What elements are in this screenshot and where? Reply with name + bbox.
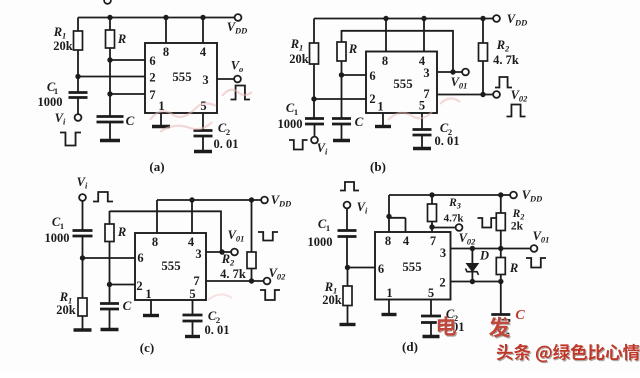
circuit (c) top supply rail wire xyxy=(157,199,261,201)
svg-text:1000: 1000 xyxy=(308,235,333,249)
svg-text:0. 01: 0. 01 xyxy=(435,134,460,148)
svg-text:4: 4 xyxy=(403,234,410,248)
circuit (d) VDD terminal xyxy=(510,188,542,204)
wire pin6 to 555 (b) xyxy=(342,74,367,76)
wire pin3 output (d) xyxy=(451,248,531,250)
wire pin8 to rail (c) xyxy=(156,200,158,233)
pin 1 label (d) xyxy=(386,286,392,300)
wire rail down to pins 8-4 (d) xyxy=(388,195,390,232)
capacitor C2 0.01 (b) xyxy=(413,113,460,148)
svg-text:1: 1 xyxy=(326,223,330,233)
output terminal V01 (d) xyxy=(531,229,550,252)
capacitor C2 0.01 (d) xyxy=(421,300,465,337)
svg-text:2: 2 xyxy=(439,276,445,290)
capacitor C1 1000 (d) xyxy=(308,209,357,268)
svg-text:R: R xyxy=(117,32,126,46)
pin 8 label (d) xyxy=(385,234,391,248)
pin 2 label (c) xyxy=(136,279,142,293)
svg-text:2: 2 xyxy=(226,127,230,137)
node pin2-R junction (d) xyxy=(498,279,503,284)
pin 6 label (d) xyxy=(378,262,384,276)
svg-text:5: 5 xyxy=(189,287,195,301)
wire R-top to pin3 feedback (b) xyxy=(342,30,454,72)
svg-text:0. 01: 0. 01 xyxy=(205,323,230,337)
pin 6 label (b) xyxy=(369,69,375,83)
svg-text:1: 1 xyxy=(60,221,64,231)
svg-text:5: 5 xyxy=(200,99,206,113)
pin 5 label (d) xyxy=(428,286,434,300)
svg-text:(c): (c) xyxy=(140,340,154,355)
resistor R1 20k (a) xyxy=(53,18,83,77)
resistor R (a) xyxy=(106,18,127,61)
svg-text:2k: 2k xyxy=(511,221,524,233)
svg-text:5: 5 xyxy=(428,286,434,300)
pin 2 label (a) xyxy=(149,71,155,85)
svg-text:8: 8 xyxy=(152,235,158,249)
node pin7 junction (c) xyxy=(249,278,254,283)
svg-text:8: 8 xyxy=(382,54,388,68)
ground below C2 (d) xyxy=(423,335,440,338)
red headline text toutiao at lvsebixinqing xyxy=(496,343,640,364)
pin 7 label (d) xyxy=(430,234,436,248)
wire pin8 to rail (a) xyxy=(165,18,167,44)
svg-text:3: 3 xyxy=(195,247,201,261)
node: pin7 junction (a) xyxy=(107,91,112,96)
pin 3 label (a) xyxy=(202,73,208,87)
node rail-R2 (b) xyxy=(480,16,485,21)
svg-text:20k: 20k xyxy=(289,52,309,66)
circuit (d) top supply rail wire xyxy=(389,194,510,196)
wire pin2 to 555 (c) xyxy=(110,284,136,286)
svg-text:C: C xyxy=(515,308,525,323)
capacitor C1 1000 (c) xyxy=(45,201,93,258)
capacitor C (c) xyxy=(100,285,132,330)
svg-text:1000: 1000 xyxy=(45,231,70,245)
node pin6 junction (b) xyxy=(339,72,344,77)
circuit (a) VDD terminal xyxy=(227,14,248,35)
label (a) xyxy=(149,159,164,174)
svg-text:3: 3 xyxy=(423,66,429,80)
input terminal Vi (d) xyxy=(344,200,368,216)
node rail-R2 (d) xyxy=(498,192,503,197)
resistor R1 20k (d) xyxy=(322,268,352,325)
svg-text:0. 01: 0. 01 xyxy=(214,137,239,151)
negative pulse near V02 (d) xyxy=(478,218,497,228)
wire pin3 output (c) xyxy=(206,251,231,253)
ground below C (d) xyxy=(492,333,509,336)
capacitor C1 1000 (b) xyxy=(278,99,325,137)
svg-text:555: 555 xyxy=(393,77,412,91)
svg-text:3: 3 xyxy=(440,246,446,260)
wire pin6 to 555 (a) xyxy=(110,59,145,61)
negative pulse near V01 (c) xyxy=(258,232,278,241)
node pin7-R2 junction (b) xyxy=(480,92,485,97)
resistor R (d) xyxy=(496,249,518,282)
node rail-pin4 (c) xyxy=(189,197,194,202)
capacitor C (a) xyxy=(97,113,135,128)
wire down to capacitor C (d) xyxy=(500,282,502,315)
ground below R1 (d) xyxy=(340,323,356,326)
svg-text:6: 6 xyxy=(369,69,375,83)
resistor R1 20k (c) xyxy=(56,258,87,330)
negative pulse near V02 (c) xyxy=(260,290,280,300)
wire pin2 to 555 (a) xyxy=(78,76,145,78)
svg-text:20k: 20k xyxy=(322,293,342,307)
svg-text:555: 555 xyxy=(172,70,191,84)
svg-text:(b): (b) xyxy=(370,159,386,174)
wire R-top feedback to pin3 (c) xyxy=(110,211,222,253)
svg-text:1: 1 xyxy=(377,100,383,114)
pin 4 label (b) xyxy=(419,54,426,68)
pin 1 label (b) xyxy=(377,100,383,114)
svg-text:4. 7k: 4. 7k xyxy=(220,267,246,281)
pin 3 label (c) xyxy=(195,247,201,261)
faint pink watermark scribble over circuit c xyxy=(208,294,232,300)
svg-text:7: 7 xyxy=(193,274,199,288)
node pin8 hook junction (d) xyxy=(386,214,391,219)
diode D zener (d) xyxy=(466,249,490,282)
output positive pulse waveform (a) xyxy=(231,86,251,100)
wire pin3 output (b) xyxy=(437,71,462,73)
pin 2 label (d) xyxy=(439,276,445,290)
resistor R1 20k (b) xyxy=(289,19,318,100)
ground pin1 (a) xyxy=(152,113,170,127)
wire pin7 down (d) xyxy=(431,227,433,232)
svg-text:C: C xyxy=(355,114,364,129)
wire pin8 to rail (b) xyxy=(385,19,387,52)
negative pulse near V01 (d) xyxy=(526,258,546,268)
terminal V02 (d) xyxy=(456,224,477,246)
svg-text:555: 555 xyxy=(402,260,421,274)
node pin2 junction (c) xyxy=(107,282,112,287)
node: rail junction pin4 wire xyxy=(200,15,205,20)
node pin3-feedback junction (b) xyxy=(450,69,455,74)
resistor R2 2k (d) xyxy=(496,195,524,249)
pin 4 label (d) xyxy=(403,234,410,248)
positive pulse near V02 (b) xyxy=(507,105,526,117)
svg-text:(a): (a) xyxy=(149,159,164,174)
faint pink watermark scribble over circuit a xyxy=(150,90,252,132)
pin 3 label (d) xyxy=(440,246,446,260)
wire hook to pin4 (d) xyxy=(389,218,406,232)
ground pin1 (c) xyxy=(143,300,159,316)
pin 8 label (b) xyxy=(382,54,388,68)
label (d) xyxy=(402,339,418,354)
pin 7 label (b) xyxy=(423,87,429,101)
svg-text:4.7k: 4.7k xyxy=(444,213,465,225)
pin 5 label (a) xyxy=(200,99,206,113)
node A: pin2 net junction (a) xyxy=(75,74,80,79)
svg-text:1: 1 xyxy=(145,287,151,301)
svg-text:D: D xyxy=(479,249,489,263)
pin 6 label (c) xyxy=(137,251,143,265)
svg-text:6: 6 xyxy=(137,251,143,265)
ground below C (a) xyxy=(100,122,120,141)
input terminal Vi (c) xyxy=(77,175,88,201)
pin 5 label (c) xyxy=(189,287,195,301)
pin 3 label (b) xyxy=(423,66,429,80)
ground below C2 (a) xyxy=(194,150,212,153)
circuit (b) VDD terminal xyxy=(493,12,527,28)
svg-text:555: 555 xyxy=(161,259,180,273)
node: rail junction pin8 wire xyxy=(163,15,168,20)
resistor R2 4.7k (c) xyxy=(220,200,256,281)
input terminal Vi (a) xyxy=(55,111,82,127)
pin 8 label (c) xyxy=(152,235,158,249)
timer IC U2 555 (b) xyxy=(366,52,437,114)
red watermark character fa over capacitor C (d) xyxy=(488,316,511,339)
wire pin7 output (c) xyxy=(206,280,264,282)
circuit (b) top supply rail wire xyxy=(314,18,493,20)
ground below C2 (c) xyxy=(185,335,200,338)
svg-text:20k: 20k xyxy=(56,303,76,317)
wire R-to-C vertical (a) xyxy=(109,60,111,94)
resistor R3 4.7k (d) xyxy=(428,195,465,227)
wire pin4 to rail (a) xyxy=(202,18,204,44)
node rail-R3 (d) xyxy=(429,192,434,197)
output terminal V01 (b) xyxy=(451,69,469,91)
svg-text:R: R xyxy=(348,42,357,56)
svg-text:20k: 20k xyxy=(53,39,73,53)
pin 8 label (a) xyxy=(163,45,169,59)
wire pin6 to 555 (c) xyxy=(83,257,136,259)
positive pulse near V01 (b) xyxy=(495,77,512,88)
svg-text:5: 5 xyxy=(419,99,425,113)
red watermark character dian over C2 label (d) xyxy=(437,315,457,337)
faint pink watermark scribble over circuit b xyxy=(388,98,460,120)
svg-text:7: 7 xyxy=(149,88,155,102)
wire to capacitor C (a) xyxy=(109,94,111,117)
node pin2 junction (b) xyxy=(311,96,316,101)
pin 4 label (a) xyxy=(200,45,207,59)
node pin6 junction (c) xyxy=(80,255,85,260)
capacitor C2 0.01 (a) xyxy=(194,113,239,151)
resistor R (b) xyxy=(337,30,357,75)
pin 7 label (c) xyxy=(193,274,199,288)
pin 1 label (c) xyxy=(145,287,151,301)
pin 5 label (b) xyxy=(419,99,425,113)
wire pin2 (d) xyxy=(451,281,501,283)
svg-text:4: 4 xyxy=(200,45,207,59)
label (c) xyxy=(140,340,154,355)
ground pin1 (b) xyxy=(375,113,391,127)
svg-text:4: 4 xyxy=(188,235,195,249)
svg-text:(d): (d) xyxy=(402,339,418,354)
node pin3-diode junction (d) xyxy=(470,246,475,251)
svg-text:1: 1 xyxy=(294,107,298,117)
svg-text:R: R xyxy=(117,225,126,239)
node rail-R2 (c) xyxy=(249,197,254,202)
node: pin6 junction (a) xyxy=(107,57,112,62)
capacitor C2 0.01 (c) xyxy=(183,300,230,337)
wire pin4 to rail (c) xyxy=(191,200,193,233)
capacitor C1 1000 (a) xyxy=(38,77,88,115)
label (b) xyxy=(370,159,386,174)
svg-text:3: 3 xyxy=(202,73,208,87)
red watermark letter C near capacitor C (d) xyxy=(515,308,525,323)
output terminal Vo (a) xyxy=(231,59,244,83)
node R3-pin7 junction (d) xyxy=(429,224,434,229)
input negative pulse waveform (b) xyxy=(289,140,308,150)
pin 1 label (a) xyxy=(158,99,164,113)
pin 2 label (b) xyxy=(369,92,375,106)
svg-text:C: C xyxy=(123,298,132,313)
ground pin1 (d) xyxy=(382,300,397,315)
svg-text:6: 6 xyxy=(149,54,155,68)
input terminal Vi (b) xyxy=(311,137,328,157)
circuit (a) top supply rail wire xyxy=(78,17,235,19)
input negative pulse waveform (a) xyxy=(60,133,81,146)
svg-text:7: 7 xyxy=(430,234,436,248)
resistor R2 4.7k (b) xyxy=(479,19,519,95)
wire to V02 terminal (d) xyxy=(432,227,456,229)
op-amp/timer IC U1 555 (a) xyxy=(145,43,217,113)
svg-text:8: 8 xyxy=(385,234,391,248)
capacitor C (d) xyxy=(491,315,510,335)
node pin3 junction (c) xyxy=(219,249,224,254)
node pin2-diode junction (d) xyxy=(470,279,475,284)
timer IC U4 555 (d) xyxy=(375,232,451,300)
ground below C (b) xyxy=(333,139,350,142)
ground below C (c) xyxy=(101,328,119,331)
svg-text:R: R xyxy=(509,261,518,275)
svg-text:1000: 1000 xyxy=(278,117,303,131)
wire pin7 to 555 (a) xyxy=(110,93,145,95)
ground below C2 (b) xyxy=(413,147,431,150)
svg-text:1000: 1000 xyxy=(38,95,63,109)
circuit (c) VDD terminal xyxy=(261,193,291,209)
wire pin7 output (b) xyxy=(437,94,493,96)
pin 7 label (a) xyxy=(149,88,155,102)
wire pin6 to 555 (d) xyxy=(348,267,376,269)
pin 6 label (a) xyxy=(149,54,155,68)
node pin6 junction (d) xyxy=(345,265,350,270)
svg-text:2: 2 xyxy=(369,92,375,106)
output terminal V02 (b) xyxy=(493,88,528,104)
capacitor C (b) xyxy=(332,75,364,140)
node rail-pin4 (b) xyxy=(421,16,426,21)
node: rail junction at R x=110 xyxy=(107,15,112,20)
svg-text:1: 1 xyxy=(386,286,392,300)
svg-text:4. 7k: 4. 7k xyxy=(493,53,519,67)
svg-text:8: 8 xyxy=(163,45,169,59)
pin 4 label (c) xyxy=(188,235,195,249)
node rail-pin8 (b) xyxy=(383,16,388,21)
svg-text:6: 6 xyxy=(378,262,384,276)
input positive pulse waveform (c) xyxy=(93,192,113,202)
output terminal V01 (c) xyxy=(228,228,245,255)
ground below R1 (c) xyxy=(74,328,92,331)
timer IC U3 555 (c) xyxy=(135,233,206,300)
node pin3-R junction (d) xyxy=(498,246,503,251)
wire pin4 to rail (b) xyxy=(423,19,425,52)
svg-text:2: 2 xyxy=(136,279,142,293)
wire pin2 to 555 (b) xyxy=(314,98,366,100)
circuit (a) cropped terminal circle at top edge xyxy=(104,0,111,4)
svg-text:C: C xyxy=(126,113,135,128)
wire pin3 output (a) xyxy=(217,78,234,80)
svg-text:2: 2 xyxy=(149,71,155,85)
resistor R (c) xyxy=(105,211,126,285)
input positive pulse waveform (d) xyxy=(340,182,359,191)
output terminal V02 (c) xyxy=(264,266,287,284)
